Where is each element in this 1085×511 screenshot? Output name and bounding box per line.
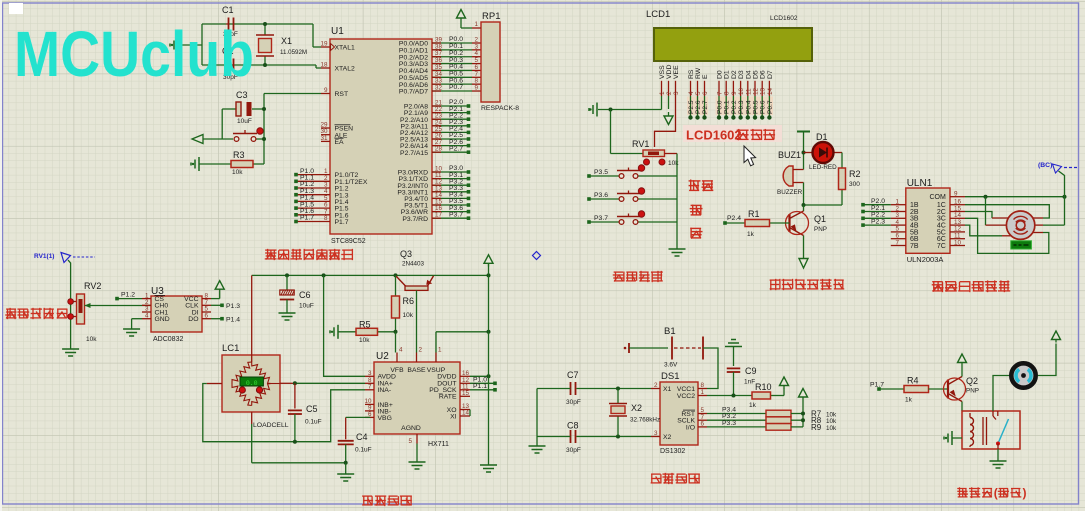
svg-text:8: 8 xyxy=(324,215,328,222)
potentiometer RV1 10k xyxy=(643,150,665,157)
pin 34 P0.5 wire to RP1 xyxy=(432,76,472,78)
push button P3.5 xyxy=(587,174,591,178)
svg-text:P3.7: P3.7 xyxy=(594,215,608,222)
wire base xyxy=(416,291,418,353)
wire X1 xyxy=(577,388,652,390)
svg-text:P2.7: P2.7 xyxy=(702,100,709,114)
wire pullup bus xyxy=(791,413,803,415)
pin 8 P1.7 with net label xyxy=(296,221,330,223)
ground xyxy=(733,347,735,367)
net P2.2 wire xyxy=(861,217,865,221)
wire avdd xyxy=(324,275,365,376)
svg-text:P1.7: P1.7 xyxy=(300,215,314,222)
svg-text:4: 4 xyxy=(399,347,403,354)
pin 7 P1.6 with net label xyxy=(296,214,330,216)
wire motor left xyxy=(993,376,1009,412)
pump motor xyxy=(1011,363,1035,387)
U2 pin 7 INA- xyxy=(365,389,374,391)
svg-text:R5: R5 xyxy=(359,320,371,330)
U2 pin 6 VBG xyxy=(365,416,374,418)
svg-text:P3.7/RD: P3.7/RD xyxy=(402,216,428,223)
wire RV1 right xyxy=(665,153,678,155)
svg-text:4: 4 xyxy=(145,312,149,319)
node reset-c3 xyxy=(262,107,266,111)
pin 25 P2.4 net stub xyxy=(432,131,468,133)
wire battery to vcc1 xyxy=(703,348,718,389)
pin 9 RST xyxy=(321,93,330,95)
svg-text:0.0: 0.0 xyxy=(246,380,258,387)
svg-text:XTAL1: XTAL1 xyxy=(335,45,355,52)
node vss xyxy=(609,108,613,112)
svg-text:R4: R4 xyxy=(907,376,919,386)
svg-text:0.1uF: 0.1uF xyxy=(305,419,322,426)
ULN pin 13 4C xyxy=(950,224,965,226)
U3 pin 7 CLK xyxy=(202,304,211,306)
net P1.7 xyxy=(877,387,881,391)
svg-text:P2.7/A15: P2.7/A15 xyxy=(400,150,428,157)
svg-text:P0.7/AD7: P0.7/AD7 xyxy=(399,89,428,96)
svg-text:10k: 10k xyxy=(359,337,370,344)
ULN pin 15 2C xyxy=(950,211,965,213)
svg-text:D1: D1 xyxy=(816,132,828,142)
svg-text:D3: D3 xyxy=(738,70,745,79)
svg-text:RESPACK-8: RESPACK-8 xyxy=(481,105,519,112)
svg-text:XTAL2: XTAL2 xyxy=(335,66,355,73)
svg-text:P0.7: P0.7 xyxy=(449,84,463,91)
svg-text:RV1: RV1 xyxy=(632,139,649,149)
svg-text:P2.3: P2.3 xyxy=(871,218,885,225)
svg-text:9: 9 xyxy=(324,87,328,94)
capacitor C6 10uF xyxy=(286,275,288,290)
svg-text:C8: C8 xyxy=(567,421,579,431)
svg-text:19: 19 xyxy=(320,41,328,48)
svg-text:ULN2003A: ULN2003A xyxy=(907,255,944,264)
pin 1 P1.0 with net label xyxy=(296,174,330,176)
svg-text:P0.3: P0.3 xyxy=(738,100,745,114)
svg-text:10k: 10k xyxy=(232,169,243,176)
wire LC1 bottom lead xyxy=(251,412,253,424)
svg-text:32.768kHz: 32.768kHz xyxy=(630,417,660,424)
svg-text:P1.7: P1.7 xyxy=(335,219,349,226)
wire 3C xyxy=(965,218,1049,253)
power down arrow xyxy=(799,259,808,269)
wire vfb xyxy=(395,332,397,353)
wire xyxy=(202,23,313,25)
resistor R6 10k xyxy=(395,275,397,296)
U3 pin 6 DO xyxy=(202,318,211,320)
U3 pin 1 CS xyxy=(142,298,151,300)
resistor R4 1k xyxy=(904,386,929,393)
svg-text:D5: D5 xyxy=(753,70,760,79)
svg-text:LOADCELL: LOADCELL xyxy=(253,422,289,429)
svg-text:AGND: AGND xyxy=(401,425,421,432)
pin 4 P1.3 with net label xyxy=(296,194,330,196)
wire RST xyxy=(264,93,321,95)
svg-text:2N4403: 2N4403 xyxy=(402,261,425,268)
pin 22 P2.1 net stub xyxy=(432,112,468,114)
wire xyxy=(803,147,805,170)
crystal X1 xyxy=(264,24,266,35)
pin 29 PSEN xyxy=(321,127,330,129)
pin 11 P3.1 net stub xyxy=(432,178,468,180)
svg-text:P3.6: P3.6 xyxy=(594,192,608,199)
svg-text:P2.5: P2.5 xyxy=(688,100,695,114)
push button P3.7 xyxy=(587,220,591,224)
pin 13 P3.3 net stub xyxy=(432,191,468,193)
svg-text:10k: 10k xyxy=(826,425,837,432)
pin arrow XTAL1 xyxy=(331,44,335,51)
resistor R10 1k xyxy=(707,395,752,397)
svg-text:RV2: RV2 xyxy=(84,281,101,291)
pin 15 P3.5 net stub xyxy=(432,204,468,206)
svg-text:P2.6: P2.6 xyxy=(695,100,702,114)
pin 28 P2.7 net stub xyxy=(432,151,468,153)
svg-text:DVDD: DVDD xyxy=(437,374,456,381)
svg-text:RATE: RATE xyxy=(439,394,457,401)
DS1 pin 1 VCC2 xyxy=(698,395,707,397)
svg-text:MCUclub: MCUclub xyxy=(14,18,254,90)
svg-text:10uF: 10uF xyxy=(237,118,252,125)
U2 pin 13 XO xyxy=(460,409,470,411)
wire COM xyxy=(965,196,1065,198)
svg-text:10k: 10k xyxy=(403,312,414,319)
net P1.4 xyxy=(211,318,222,320)
svg-text:VEE: VEE xyxy=(673,65,680,79)
pin 16 P3.6 net stub xyxy=(432,211,468,213)
label relay water xyxy=(958,488,992,498)
pin 12 P3.2 net stub xyxy=(432,184,468,186)
svg-text:BUZZER: BUZZER xyxy=(777,189,803,196)
pin 26 P2.5 net stub xyxy=(432,138,468,140)
svg-text:1: 1 xyxy=(474,21,478,28)
svg-text:P3.3: P3.3 xyxy=(722,420,736,427)
label minimal system xyxy=(265,250,352,260)
node reset-btn xyxy=(262,137,266,141)
wire motor right xyxy=(1038,344,1056,376)
IC DS1 DS1302 xyxy=(660,382,698,445)
relay coil xyxy=(970,418,974,425)
svg-text:10uF: 10uF xyxy=(299,303,314,310)
pin 19 XTAL1 xyxy=(321,46,330,48)
svg-text:DS1: DS1 xyxy=(661,371,679,382)
ground xyxy=(177,38,179,52)
ULN pin 14 3C xyxy=(950,217,965,219)
U2 top pin 1 xyxy=(435,353,437,363)
U2 pin 11 PD_SCK xyxy=(460,389,470,391)
power arrow xyxy=(961,366,963,377)
svg-text:LCD1602: LCD1602 xyxy=(686,128,742,143)
ULN pin 3 3B xyxy=(891,217,906,219)
svg-text:): ) xyxy=(1023,486,1027,500)
relay box xyxy=(962,411,1020,449)
node XTAL2 xyxy=(263,63,267,67)
relay switch xyxy=(992,411,994,416)
DS1 pin 5 RST xyxy=(698,413,707,415)
svg-text:12: 12 xyxy=(753,87,760,95)
svg-text:7: 7 xyxy=(717,91,724,95)
svg-text:14: 14 xyxy=(462,410,470,417)
ground xyxy=(198,157,200,171)
svg-text:6: 6 xyxy=(701,421,705,428)
U2 pin 9 INB- xyxy=(365,410,374,412)
pin 38 P0.1 wire to RP1 xyxy=(432,49,472,51)
pin 14 P3.4 net stub xyxy=(432,197,468,199)
transistor Q2 PNP xyxy=(947,380,949,399)
net P2.1 wire xyxy=(861,210,865,214)
U2 pin 12 DOUT xyxy=(460,382,470,384)
svg-text:LC1: LC1 xyxy=(222,343,239,354)
origin marker xyxy=(533,252,541,260)
U2 top pin 2 xyxy=(416,353,418,363)
wire vcc drop xyxy=(488,264,490,466)
svg-text:C4: C4 xyxy=(356,432,368,442)
svg-text:3: 3 xyxy=(673,91,680,95)
svg-text:3: 3 xyxy=(654,430,658,437)
svg-text:15: 15 xyxy=(462,390,470,397)
svg-text:RW: RW xyxy=(695,67,702,79)
svg-text:B1: B1 xyxy=(664,326,676,337)
wire LC1 left to INA- xyxy=(207,383,222,385)
stepper label plate xyxy=(1011,241,1032,249)
U3 pin 5 DI xyxy=(202,311,211,313)
power VCC arrow xyxy=(457,10,466,19)
wiper wire to CH0 xyxy=(85,305,152,307)
power arrow xyxy=(1052,331,1061,340)
svg-text:11: 11 xyxy=(745,88,752,95)
svg-text:C7: C7 xyxy=(567,370,579,380)
svg-text:COM: COM xyxy=(929,194,946,201)
svg-text:VDD: VDD xyxy=(666,65,673,79)
wire collector rail xyxy=(804,204,843,206)
svg-text:X1: X1 xyxy=(663,386,672,393)
wire vcc rail xyxy=(252,274,489,276)
capacitor C9 1nF xyxy=(727,367,741,369)
svg-text:VCC2: VCC2 xyxy=(677,393,695,400)
svg-text:R1: R1 xyxy=(748,209,760,219)
ground xyxy=(70,347,72,349)
label weighing module xyxy=(363,496,411,505)
wire 1C xyxy=(965,205,1049,218)
ULN pin 6 6B xyxy=(891,238,906,240)
svg-text:EA: EA xyxy=(335,139,345,146)
ULN pin 4 4B xyxy=(891,224,906,226)
pin 6 P1.5 with net label xyxy=(296,207,330,209)
node d1 xyxy=(802,151,806,155)
wire xyxy=(202,64,316,66)
U2 pin 16 DVDD xyxy=(460,375,470,377)
svg-text:0.1uF: 0.1uF xyxy=(355,447,372,454)
resistor pack RP1 RESPACK-8 xyxy=(481,22,500,102)
svg-text:R6: R6 xyxy=(403,296,415,306)
white box top-left xyxy=(9,3,23,14)
svg-text:HX711: HX711 xyxy=(428,441,449,448)
svg-text:VCC1: VCC1 xyxy=(677,386,695,393)
LC1 display xyxy=(240,377,263,386)
U3 ground xyxy=(132,318,142,320)
wire LC1 top lead xyxy=(251,275,253,362)
svg-text:1k: 1k xyxy=(749,402,757,409)
svg-text:E: E xyxy=(702,74,709,79)
svg-text:7: 7 xyxy=(368,384,372,391)
svg-text:PNP: PNP xyxy=(966,388,979,395)
svg-text:D1: D1 xyxy=(724,70,731,79)
svg-text:P3.7: P3.7 xyxy=(449,211,463,218)
crystal X2 32.768kHz xyxy=(616,387,620,391)
wire rv2 xyxy=(68,260,71,347)
wire emitter to relay xyxy=(961,402,963,412)
pin 21 P2.0 net stub xyxy=(432,105,468,107)
svg-text:7B: 7B xyxy=(910,243,919,250)
node c4 gnd xyxy=(344,461,348,465)
svg-text:P2.7: P2.7 xyxy=(449,145,463,152)
pin 31 EA xyxy=(321,140,330,142)
pin 17 P3.7 net stub xyxy=(432,217,468,219)
svg-text:I/O: I/O xyxy=(686,424,695,431)
U3 VCC power xyxy=(211,298,220,300)
svg-text:7C: 7C xyxy=(937,243,946,250)
svg-text:VSS: VSS xyxy=(659,65,666,79)
DS1 pin 3 X2 xyxy=(651,436,660,438)
svg-text:D7: D7 xyxy=(767,70,774,79)
U2 pin 14 XI xyxy=(460,415,470,417)
svg-text:18: 18 xyxy=(320,62,328,69)
push button P3.6 xyxy=(587,197,591,201)
wire dvdd xyxy=(470,375,489,377)
svg-text:D0: D0 xyxy=(717,70,724,79)
svg-text:1: 1 xyxy=(438,347,442,354)
svg-text:9: 9 xyxy=(731,91,738,95)
DS1 pin 7 SCLK xyxy=(698,419,707,421)
svg-text:P0.1: P0.1 xyxy=(724,100,731,114)
svg-text:P0.5: P0.5 xyxy=(753,100,760,114)
resistor R7 10k xyxy=(766,410,791,417)
pin 36 P0.3 wire to RP1 xyxy=(432,63,472,65)
U2 pin 10 INB+ xyxy=(365,403,374,405)
svg-text:7: 7 xyxy=(895,239,899,246)
svg-text:(: ( xyxy=(994,486,998,500)
svg-text:11.0592M: 11.0592M xyxy=(280,49,307,56)
wire xyxy=(803,183,805,206)
ground xyxy=(529,445,546,447)
svg-text:30pF: 30pF xyxy=(566,447,581,454)
svg-text:17: 17 xyxy=(435,212,443,219)
U3 pin 4 GND xyxy=(142,318,151,320)
svg-text:1: 1 xyxy=(701,389,705,396)
svg-text:ULN1: ULN1 xyxy=(907,178,933,189)
pin 39 P0.0 wire to RP1 xyxy=(432,42,472,44)
svg-text:28: 28 xyxy=(435,146,443,153)
svg-text:P0.6: P0.6 xyxy=(760,100,767,114)
terminal input arrow xyxy=(192,135,203,144)
U3 pin 8 VCC xyxy=(202,298,211,300)
svg-text:10: 10 xyxy=(738,87,745,95)
svg-text:X2: X2 xyxy=(631,403,642,413)
svg-text:D4: D4 xyxy=(745,70,752,79)
svg-text:2: 2 xyxy=(666,91,673,95)
resistor R2 300 xyxy=(841,153,843,169)
wire VEE xyxy=(655,96,676,147)
svg-text:RST: RST xyxy=(335,91,349,98)
power arrow xyxy=(799,389,808,398)
pin 30 ALE xyxy=(321,134,330,136)
wire xyxy=(201,24,203,65)
pin 23 P2.2 net stub xyxy=(432,118,468,120)
svg-text:STC89C52: STC89C52 xyxy=(331,238,366,245)
svg-text:R2: R2 xyxy=(849,169,861,179)
ground switch xyxy=(997,449,999,461)
svg-text:P1.1: P1.1 xyxy=(473,383,487,390)
svg-text:9: 9 xyxy=(474,85,478,92)
ground xyxy=(480,464,497,466)
resistor R5 10k xyxy=(337,325,339,339)
svg-text:32: 32 xyxy=(435,85,443,92)
wire X2 xyxy=(577,436,652,438)
svg-text:VBG: VBG xyxy=(378,415,392,422)
svg-text:X1: X1 xyxy=(281,36,292,46)
svg-text:LED-RED: LED-RED xyxy=(809,164,837,171)
svg-text:Q3: Q3 xyxy=(400,249,412,259)
resistor R3 xyxy=(199,163,231,165)
svg-text:P0.7: P0.7 xyxy=(767,100,774,114)
pin 27 P2.6 net stub xyxy=(432,145,468,147)
svg-text:3: 3 xyxy=(368,370,372,377)
net P2.3 wire xyxy=(861,223,865,227)
U3 pin 2 CH0 xyxy=(142,304,151,306)
wire LC1 right to INA+ xyxy=(280,382,295,384)
svg-text:DS1302: DS1302 xyxy=(660,448,685,455)
node c5 xyxy=(293,440,297,444)
ULN pin 2 2B xyxy=(891,211,906,213)
svg-text:P0.2: P0.2 xyxy=(731,100,738,114)
label alarm circuit xyxy=(770,280,843,290)
wire BC to motor xyxy=(1059,171,1065,225)
power arrow xyxy=(484,255,493,263)
DS1 pin 2 X1 xyxy=(651,388,660,390)
DS1 pin 8 VCC1 xyxy=(698,388,707,390)
svg-text:6: 6 xyxy=(205,312,209,319)
svg-text:14: 14 xyxy=(767,87,774,95)
U2 top pin 4 xyxy=(396,353,398,363)
DS1 pin 6 I/O xyxy=(698,426,707,428)
svg-text:C9: C9 xyxy=(745,366,757,376)
svg-text:P0.0: P0.0 xyxy=(717,100,724,114)
ULN pin 9 COM xyxy=(950,196,965,198)
svg-text:1: 1 xyxy=(659,91,666,95)
LED D1 LED-RED xyxy=(804,152,813,154)
svg-text:XI: XI xyxy=(450,413,457,420)
svg-text:ADC0832: ADC0832 xyxy=(153,336,183,343)
capacitor C5 0.1uF xyxy=(294,383,296,408)
power arrow xyxy=(783,388,785,396)
node r5 r6 xyxy=(394,330,398,334)
svg-text:3.6V: 3.6V xyxy=(664,362,678,369)
svg-text:8: 8 xyxy=(724,91,731,95)
svg-text:Q1: Q1 xyxy=(814,214,826,224)
node c9 vcc2 xyxy=(732,394,736,398)
label jian xyxy=(691,228,702,238)
svg-text:300: 300 xyxy=(849,181,860,188)
ground coil xyxy=(951,431,953,445)
svg-text:10k: 10k xyxy=(86,336,97,343)
svg-text:4: 4 xyxy=(688,91,695,95)
svg-text:BUZ1: BUZ1 xyxy=(778,150,801,160)
wire gnd left xyxy=(536,389,538,447)
pin 18 XTAL2 xyxy=(321,67,330,69)
ADC U3 ADC0832 xyxy=(151,296,202,332)
label jia xyxy=(690,205,701,215)
net P1.0 xyxy=(470,382,495,384)
label stepper motor text xyxy=(932,281,1009,291)
